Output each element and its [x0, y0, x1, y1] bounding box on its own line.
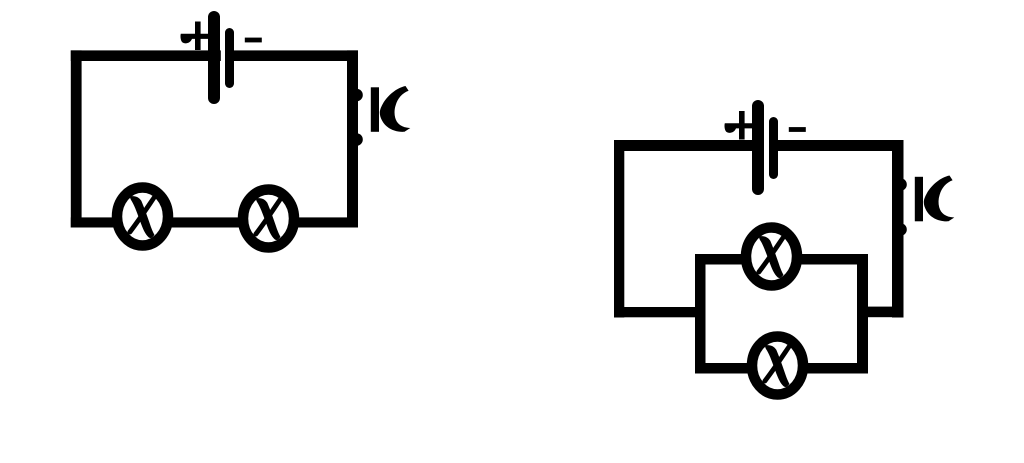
- wire: right vertical side of parallel loop: [892, 140, 904, 318]
- lamp L4 (parallel, bottom branch): [752, 337, 803, 395]
- switch K2 contact dot upper: [894, 178, 907, 191]
- label K (switch K1): [371, 86, 411, 132]
- wire: bottom side of series loop: [71, 217, 358, 227]
- wire: top side, right segment from battery - plate: [228, 50, 358, 61]
- lamp L3 (parallel, top branch): [746, 228, 797, 286]
- label K (switch K2): [915, 176, 955, 222]
- wire: bottom left segment joining node A: [614, 307, 706, 317]
- battery B1 short negative plate: [225, 28, 234, 88]
- wire: parallel block right vertical (node B column): [857, 254, 868, 374]
- battery B2 long positive plate: [752, 100, 764, 195]
- switch K1 contact dot upper: [350, 89, 363, 102]
- lamp L3 cross X: [759, 236, 784, 278]
- label + (battery B2 positive): [724, 123, 752, 133]
- switch K1 contact dot lower: [350, 133, 363, 146]
- lamp L4 cross X: [765, 345, 790, 387]
- wire: parallel block bottom branch: [695, 363, 868, 374]
- wire: top side, right segment from battery - plate: [772, 140, 904, 151]
- lamp L1 (series, left): [117, 188, 168, 246]
- label + (battery B1 positive): [180, 34, 208, 44]
- lamp L2 (series, right): [243, 190, 294, 248]
- wire: left vertical side of series loop: [71, 50, 82, 227]
- wire: top side, left segment to battery + plate: [614, 140, 764, 151]
- wire: right stub joining node B: [857, 307, 904, 318]
- wire: parallel block top branch: [695, 254, 868, 265]
- switch K2 contact dot lower: [894, 223, 907, 236]
- wire: right vertical side of series loop: [347, 50, 358, 227]
- wire: parallel block left vertical (node A column): [695, 254, 706, 374]
- battery B2 short negative plate: [769, 117, 778, 179]
- lamp L1 cross X: [130, 196, 155, 238]
- wire: top side, left segment to battery + plate: [71, 50, 221, 61]
- battery B1 long positive plate: [208, 11, 220, 104]
- label - (battery B2 negative): [789, 127, 806, 132]
- label - (battery B1 negative): [245, 38, 262, 43]
- lamp L2 cross X: [256, 198, 281, 240]
- wire: left vertical side of parallel loop: [614, 140, 624, 318]
